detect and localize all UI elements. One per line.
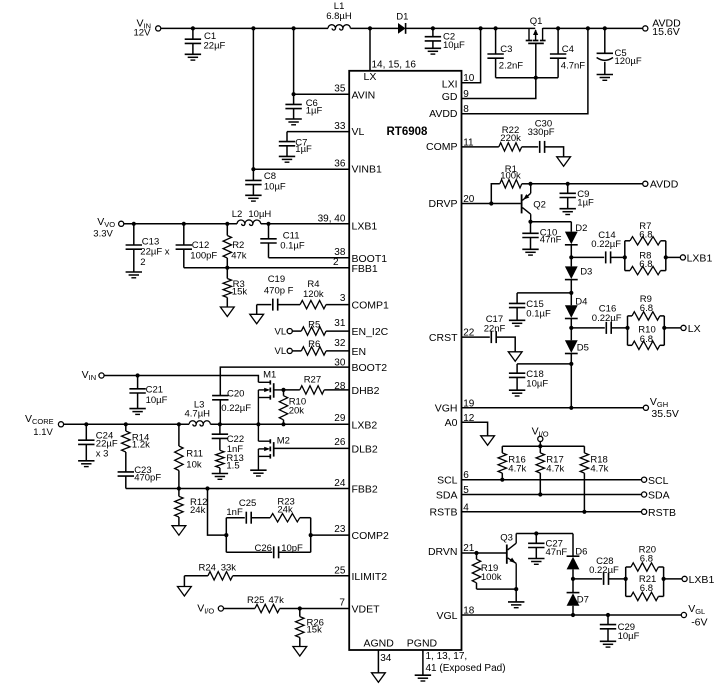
svg-text:47k: 47k [231, 251, 247, 262]
wire C28 to R20 R21 [609, 578, 626, 580]
svg-text:R2: R2 [232, 240, 244, 251]
svg-text:GD: GD [442, 91, 458, 103]
svg-text:LXB1: LXB1 [689, 574, 715, 586]
wire node to C18 [517, 363, 571, 365]
svg-text:31: 31 [334, 318, 346, 329]
transistor Q1 [526, 16, 546, 44]
wire VIO to R25 [224, 608, 255, 610]
diode D2 [565, 222, 588, 245]
svg-text:10µF: 10µF [443, 40, 465, 51]
capacitor C19 [264, 274, 294, 310]
svg-text:33: 33 [334, 121, 346, 132]
wire COMP2 pin 23 [311, 534, 350, 536]
wire R7 R8 left bracket [624, 241, 626, 271]
capacitor C27 [528, 534, 567, 559]
svg-text:4.7k: 4.7k [508, 464, 526, 475]
resistor R18 [580, 446, 608, 512]
svg-text:DHB2: DHB2 [352, 385, 380, 397]
wire pullup bus [502, 445, 584, 447]
capacitor C16 [592, 304, 622, 334]
node VIN terminal mid [82, 369, 105, 382]
node VIO terminal VDET [197, 602, 223, 615]
wire SDA pin 5 [462, 494, 642, 496]
svg-text:15.6V: 15.6V [652, 26, 679, 38]
resistor R25 [247, 595, 284, 613]
node VL terminal EN_I2C [275, 326, 293, 337]
svg-text:22µF x: 22µF x [140, 247, 169, 258]
wire C8 riser to VINB1 pin 36 [253, 28, 349, 169]
svg-text:x 3: x 3 [96, 449, 109, 460]
diode D5 [565, 328, 589, 354]
capacitor C10 [522, 222, 561, 250]
junction D7 VGL line [571, 613, 575, 617]
U1 left pin numbers [318, 84, 346, 609]
resistor R26 [296, 609, 324, 647]
wire VVO rail [124, 223, 237, 225]
node AVDD 15.6V output terminal [643, 17, 681, 38]
svg-text:1.5: 1.5 [226, 461, 239, 472]
junction R7 R8 left [623, 255, 627, 259]
svg-text:0.22µF: 0.22µF [591, 239, 621, 250]
resistor R24 [199, 563, 237, 580]
svg-text:4.7µH: 4.7µH [185, 408, 211, 419]
capacitor C14 [591, 230, 621, 264]
svg-text:6.8µH: 6.8µH [326, 11, 352, 22]
ground below C8 [245, 195, 261, 201]
svg-text:VGH: VGH [435, 403, 458, 415]
wire FBB2 pin 24 [126, 488, 349, 490]
wire LX pins 14 15 16 riser [370, 28, 416, 70]
junction Q2 emitter / R1 [528, 182, 532, 186]
junction Q3 emitter ground [514, 587, 518, 591]
svg-text:AVDD: AVDD [650, 179, 679, 191]
svg-text:RSTB: RSTB [648, 507, 676, 519]
svg-text:LXB1: LXB1 [687, 253, 713, 265]
svg-text:0.22µF: 0.22µF [221, 403, 251, 414]
svg-text:4.7k: 4.7k [546, 464, 564, 475]
junction R18 RSTB [582, 510, 586, 514]
svg-text:C20: C20 [227, 389, 244, 400]
svg-text:VL: VL [275, 326, 287, 337]
node VIO pullup terminal [532, 425, 549, 441]
junction M1 gate R10 R27 [281, 388, 285, 392]
diode D1 [396, 12, 408, 34]
ground triangle AGND [372, 673, 386, 683]
node RSTB output terminal [642, 507, 677, 519]
svg-text:EN: EN [352, 346, 367, 358]
wire R24 left lead [184, 575, 208, 577]
svg-text:3: 3 [340, 293, 346, 304]
svg-text:D1: D1 [396, 12, 408, 23]
svg-text:FBB2: FBB2 [352, 484, 378, 496]
ground triangle below R26 [293, 647, 307, 657]
wire R25 to VDET pin 7 [280, 608, 350, 610]
ground triangle below A0 [481, 436, 495, 446]
wire C3 C4 bottoms [496, 77, 558, 79]
capacitor C24 [78, 424, 118, 461]
wire DRVN pin 21 [462, 552, 477, 554]
capacitor C4 [550, 28, 585, 77]
svg-text:LX: LX [688, 323, 701, 335]
capacitor C29 [600, 615, 640, 642]
wire C26 bottom branch right [279, 551, 311, 553]
svg-text:22nF: 22nF [484, 323, 506, 334]
resistor R22 [499, 125, 522, 151]
svg-text:2.2nF: 2.2nF [499, 61, 523, 72]
svg-text:VL: VL [275, 346, 287, 357]
resistor R1 [500, 164, 522, 188]
wire COMP2 tap down [208, 489, 227, 536]
junction C13 top [132, 222, 136, 226]
svg-text:47nF: 47nF [546, 547, 568, 558]
svg-text:2: 2 [333, 257, 339, 268]
resistor R5 [301, 320, 326, 336]
resistor R16 [498, 446, 526, 480]
svg-text:34: 34 [380, 653, 392, 664]
svg-text:47nF: 47nF [540, 235, 562, 246]
svg-text:6.8: 6.8 [640, 303, 653, 314]
wire VL to R6 [292, 350, 301, 352]
svg-text:ILIMIT2: ILIMIT2 [352, 571, 388, 583]
junction C24 top [84, 422, 88, 426]
capacitor C1 [185, 28, 226, 54]
svg-text:0.22µF: 0.22µF [592, 313, 622, 324]
svg-text:AGND: AGND [364, 638, 395, 650]
junction C11 top [266, 222, 270, 226]
transistor M2 [258, 424, 290, 470]
svg-text:39, 40: 39, 40 [318, 214, 346, 225]
junction R20 R21 right [662, 577, 666, 581]
capacitor C21 [129, 376, 167, 409]
svg-text:M1: M1 [263, 370, 276, 381]
wire BOOT2 pin 30 [220, 367, 349, 396]
wire D5 node to VGH line [570, 364, 572, 408]
capacitor C8 [245, 169, 286, 195]
wire R19 bottom to Q3 emitter [477, 588, 517, 590]
svg-text:A0: A0 [445, 417, 458, 429]
junction DRVN R19 tap [474, 551, 478, 555]
junction D6 D7 node [571, 577, 575, 581]
wire DRVP pin 20 [462, 203, 492, 205]
inductor L2 [232, 209, 272, 225]
svg-text:DRVP: DRVP [429, 198, 458, 210]
resistor R23 [270, 497, 300, 522]
junction C8 riser top [251, 26, 255, 30]
junction R10 bottom LXB2 [281, 422, 285, 426]
svg-text:DRVN: DRVN [428, 546, 458, 558]
wire R9 R10 right bracket [663, 316, 665, 345]
wire AGND pin 34 [378, 650, 391, 673]
junction D2 D3 node [569, 255, 573, 259]
capacitor C15 [509, 293, 551, 320]
svg-text:C21: C21 [146, 385, 163, 396]
ground below C6 [285, 119, 301, 125]
svg-text:COMP: COMP [426, 141, 458, 153]
svg-text:6.8: 6.8 [640, 583, 653, 594]
wire M2 gate to DLB2 pin 26 [274, 447, 350, 449]
svg-text:LXI: LXI [442, 78, 458, 90]
wire R27 to DHB2 pin 28 [324, 389, 349, 391]
svg-text:1.2k: 1.2k [132, 440, 150, 451]
wire node to C14 [571, 256, 604, 258]
ground triangle below R12 [172, 526, 186, 536]
resistor R13 [216, 450, 244, 473]
wire Q2 emitter rail to AVDD [531, 183, 643, 185]
wire PGND pins [423, 650, 506, 675]
wire VIN to M1 drain [104, 376, 258, 383]
wire C26 bottom branch left [226, 551, 272, 553]
node VGH 35.5V output terminal [643, 396, 679, 420]
ground below C5 [597, 75, 613, 81]
U1 right pin names [426, 78, 458, 622]
wire C25 to R23 [251, 517, 270, 519]
svg-text:LXB1: LXB1 [352, 221, 378, 233]
svg-text:R5: R5 [308, 320, 320, 331]
svg-text:33k: 33k [221, 563, 237, 574]
svg-text:VDET: VDET [352, 604, 381, 616]
ground below C15 [509, 320, 525, 326]
wire C25 R23 top branch [226, 517, 245, 519]
wire R20 R21 left bracket [625, 567, 627, 596]
junction AVDD riser top [586, 26, 590, 30]
junction R9 R10 right [662, 326, 666, 330]
svg-text:36: 36 [334, 158, 346, 169]
capacitor C7 [279, 132, 312, 157]
capacitor C5 electrolytic [597, 28, 642, 74]
resistor R27 [300, 375, 324, 394]
ground triangle below C19 [250, 305, 264, 324]
transistor Q2 [522, 184, 546, 222]
resistor R10 parallel 6.8 [628, 325, 665, 350]
svg-text:1.1V: 1.1V [33, 427, 53, 438]
capacitor C26 [255, 543, 304, 558]
svg-text:BOOT2: BOOT2 [352, 362, 388, 374]
svg-text:35: 35 [334, 84, 346, 95]
wire to LX terminal [664, 327, 681, 329]
node SDA output terminal [642, 490, 670, 502]
junction VGH line [569, 406, 573, 410]
svg-text:10µF: 10µF [526, 379, 548, 390]
wire D6 to node [572, 569, 574, 579]
svg-text:4.7nF: 4.7nF [561, 61, 585, 72]
junction C3 top [494, 26, 498, 30]
wire C6 riser to AVIN pin 35 [294, 28, 350, 94]
ground triangle below C30 [557, 157, 571, 167]
junction R25 R26 [298, 606, 302, 610]
resistor R2 [223, 224, 247, 268]
junction C5 top [603, 26, 607, 30]
capacitor C30 [528, 119, 555, 153]
wire COMP pin 11 [462, 146, 499, 148]
svg-text:C19: C19 [268, 274, 285, 285]
svg-text:330pF: 330pF [528, 127, 555, 138]
capacitor C6 [285, 94, 322, 119]
wire R24 to ILIMIT2 pin 25 [233, 575, 350, 577]
svg-text:R11: R11 [186, 449, 203, 460]
wire R6 to EN pin 32 [326, 350, 349, 352]
wire node to C15 [517, 292, 571, 294]
svg-text:14, 15, 16: 14, 15, 16 [372, 59, 417, 70]
junction C21 top [136, 373, 140, 377]
svg-text:120k: 120k [303, 289, 324, 300]
svg-text:100k: 100k [481, 572, 502, 583]
junction C29 top [606, 613, 610, 617]
wire BOOT1 pin 38 [269, 257, 350, 259]
junction C27 top [534, 531, 538, 535]
svg-text:4.7k: 4.7k [590, 464, 608, 475]
svg-text:LX: LX [364, 71, 377, 83]
wire COMP2 left bracket [225, 518, 227, 553]
wire R7 R8 right bracket [665, 241, 667, 271]
wire R22 to C30 [522, 146, 539, 148]
wire C16 to R9 R10 [611, 327, 627, 329]
svg-text:C3: C3 [500, 44, 512, 55]
svg-text:1µF: 1µF [577, 198, 594, 209]
ground below C13 [126, 272, 142, 278]
wire R23 to right bracket [300, 517, 311, 519]
ground below R13 [212, 474, 228, 480]
resistor R9 [628, 294, 665, 320]
junction D3 D4 node [569, 291, 573, 295]
junction R2 top [225, 222, 229, 226]
capacitor C3 [487, 28, 523, 77]
svg-text:D5: D5 [577, 342, 589, 353]
svg-text:DLB2: DLB2 [352, 444, 378, 456]
svg-text:SDA: SDA [648, 490, 670, 502]
wire L3 to LXB2 pin 29 [210, 423, 349, 425]
svg-text:D3: D3 [580, 266, 592, 277]
wire R9 R10 left bracket [627, 316, 629, 345]
resistor R3 [223, 268, 247, 307]
junction LXI riser top [479, 26, 483, 30]
junction Q1 gate / C3 C4 line [534, 76, 538, 80]
wire R4 to COMP1 pin 3 [326, 304, 349, 306]
wire D7 to VGL line [572, 606, 574, 615]
svg-text:FBB1: FBB1 [352, 263, 378, 275]
svg-text:EN_I2C: EN_I2C [352, 326, 389, 338]
junction C20 C22 node [218, 422, 222, 426]
junction C6 riser top [292, 26, 296, 30]
wire L2 to LXB1 pins 39 40 [261, 223, 349, 225]
wire CRST pin 22 [462, 336, 490, 338]
resistor R8 [625, 250, 666, 274]
wire node to C16 [571, 327, 605, 329]
wire to LXB1 terminal [666, 256, 681, 258]
node LXB1 output terminal [680, 253, 712, 265]
node LXB1 bottom output terminal [682, 574, 714, 586]
svg-text:AVIN: AVIN [352, 89, 376, 101]
node VVO 3.3V input terminal [93, 216, 123, 240]
svg-text:29: 29 [334, 413, 346, 424]
junction R20 R21 left [624, 577, 628, 581]
svg-text:3.3V: 3.3V [93, 229, 113, 240]
resistor R19 [472, 553, 501, 589]
svg-text:15k: 15k [232, 286, 248, 297]
svg-text:L2: L2 [232, 209, 243, 220]
svg-text:23: 23 [334, 524, 346, 535]
svg-text:R27: R27 [304, 375, 321, 386]
capacitor C28 [589, 556, 619, 585]
U1 bottom pin names AGND PGND [364, 638, 438, 650]
svg-text:47k: 47k [269, 595, 285, 606]
wire VL pin 33 [287, 131, 349, 133]
wire to LXB1 bottom terminal [664, 578, 682, 580]
svg-text:22µF: 22µF [204, 40, 226, 51]
svg-text:1nF: 1nF [226, 507, 243, 518]
wire node to C28 [573, 578, 602, 580]
wire M1 gate to R27 [284, 389, 300, 391]
ground below C24 [78, 461, 94, 467]
junction R16 SCL [500, 478, 504, 482]
capacitor C11 [260, 224, 305, 258]
capacitor C23 [118, 452, 162, 489]
wire Q2 collector to D2 [531, 221, 572, 223]
svg-text:6.8: 6.8 [640, 553, 653, 564]
capacitor C22 [212, 424, 244, 455]
wire AVDD pin 8 riser [462, 28, 588, 113]
wire VL to R5 [292, 330, 301, 332]
junction AVIN C6 [292, 92, 296, 96]
svg-text:20k: 20k [289, 406, 305, 417]
svg-text:RSTB: RSTB [429, 507, 457, 519]
junction Q2 collector node [528, 220, 532, 224]
junction R11 top [177, 422, 181, 426]
svg-text:C26: C26 [255, 543, 272, 554]
svg-text:LXB2: LXB2 [352, 419, 378, 431]
wire LXI pin 10 riser [462, 28, 481, 82]
wire DRVP to Q2 base [491, 203, 521, 205]
wire FBB1 pin 2 [184, 267, 349, 269]
ground below C9 [560, 209, 576, 215]
svg-text:CRST: CRST [429, 332, 458, 344]
svg-text:0.22µF: 0.22µF [589, 565, 619, 576]
svg-text:VINB1: VINB1 [352, 164, 383, 176]
resistor R17 [536, 446, 564, 494]
svg-text:470p F: 470p F [264, 285, 294, 296]
junction COMP2 out [309, 533, 313, 537]
wire D5 to node [570, 354, 572, 364]
resistor R12 [175, 489, 208, 526]
svg-text:6.8: 6.8 [639, 230, 652, 241]
svg-text:41 (Exposed Pad): 41 (Exposed Pad) [426, 663, 506, 674]
wire D3 to node [570, 280, 572, 293]
junction R14 top [124, 422, 128, 426]
svg-text:15k: 15k [307, 625, 323, 636]
svg-text:10k: 10k [186, 460, 202, 471]
junction LX riser top [368, 26, 372, 30]
svg-text:12V: 12V [134, 28, 152, 39]
ground below Q3 [508, 602, 524, 608]
svg-text:Q2: Q2 [533, 199, 546, 210]
ground below C27 [528, 559, 544, 565]
junction D5 C18 node [569, 362, 573, 366]
svg-text:SCL: SCL [648, 475, 669, 487]
capacitor C20 [212, 389, 251, 425]
junction COMP2 tap FBB2 [205, 486, 209, 490]
capacitor C2 [425, 28, 465, 50]
diode D6 [567, 547, 588, 570]
svg-text:VL: VL [352, 126, 365, 138]
svg-text:Q3: Q3 [500, 532, 513, 543]
svg-text:24k: 24k [277, 505, 293, 516]
junction C1 top [191, 26, 195, 30]
node AVDD terminal mid [643, 179, 679, 191]
svg-text:2: 2 [140, 257, 145, 268]
svg-text:120µF: 120µF [615, 56, 642, 67]
ground below C7 [279, 156, 295, 162]
wire VIO to pullup bus [539, 442, 541, 447]
wire RSTB pin 4 [462, 511, 642, 513]
